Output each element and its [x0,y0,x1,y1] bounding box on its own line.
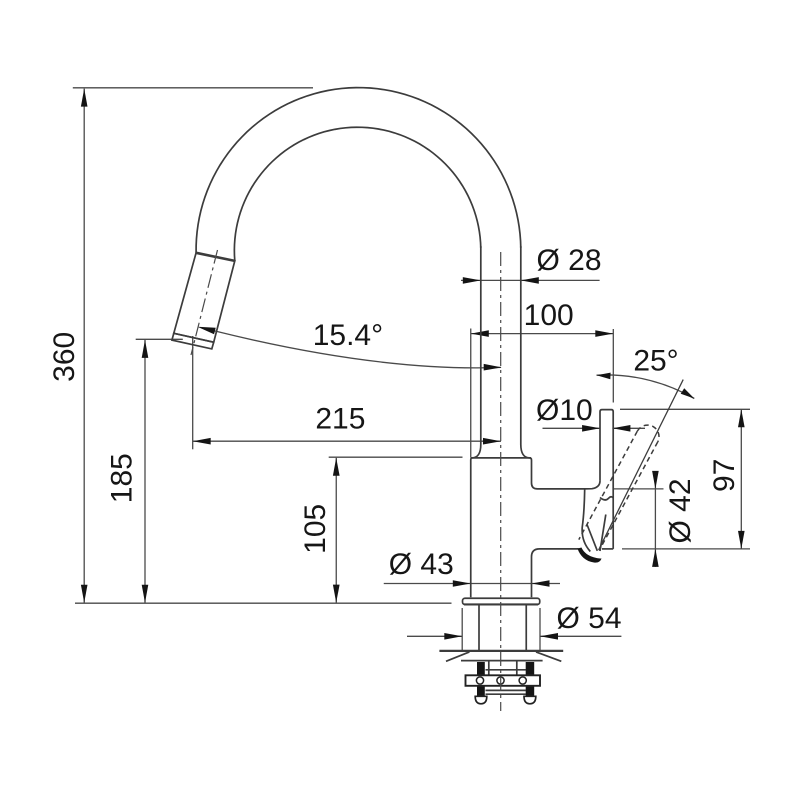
svg-text:Ø 42: Ø 42 [664,478,697,543]
svg-text:Ø 43: Ø 43 [389,548,454,581]
svg-text:Ø10: Ø10 [536,394,593,427]
svg-text:215: 215 [315,403,365,436]
svg-text:185: 185 [106,453,139,503]
svg-text:97: 97 [708,459,741,492]
svg-text:100: 100 [524,299,574,332]
svg-text:15.4°: 15.4° [313,319,383,352]
svg-text:25°: 25° [633,345,678,378]
svg-text:Ø 28: Ø 28 [536,244,601,277]
svg-text:360: 360 [48,332,81,382]
svg-text:105: 105 [299,504,332,554]
svg-text:Ø 54: Ø 54 [556,602,621,635]
